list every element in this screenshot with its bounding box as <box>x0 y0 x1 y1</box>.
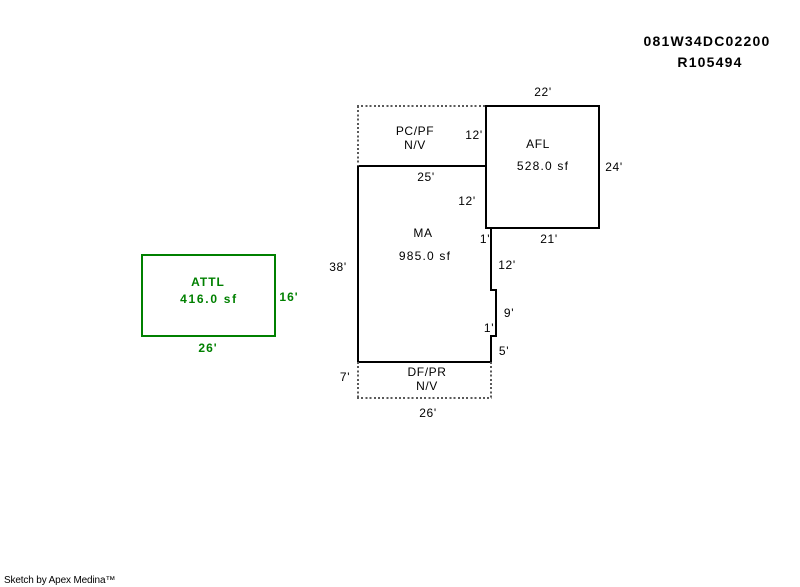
label sketch credit <box>4 575 115 586</box>
label 7' DF/PR left <box>340 370 350 384</box>
label 24' AFL right <box>605 160 622 174</box>
label 5' <box>499 344 509 358</box>
label R105494 <box>677 54 742 70</box>
wire MA top (25') <box>357 165 487 167</box>
wire MA right vertical (9') <box>495 289 497 337</box>
label 416.0 sf <box>180 292 238 306</box>
label 12' MA right upper <box>458 194 475 208</box>
wire MA right vertical (12') <box>490 227 492 291</box>
label 1' step <box>480 232 490 246</box>
label 25' MA top <box>417 170 434 184</box>
label 22' AFL top <box>534 85 551 99</box>
wire MA bottom (26') <box>357 361 492 363</box>
label parcel id 081W34DC02200 <box>644 33 771 49</box>
label AFL <box>526 137 550 151</box>
label 985.0 sf <box>399 249 451 263</box>
wire MA left (38') <box>357 165 359 363</box>
dotted PC/PF top <box>357 105 486 107</box>
wire MA right step back (1') <box>491 335 497 337</box>
wire MA right vertical (5') <box>490 335 492 363</box>
dotted DF/PR right <box>490 362 492 398</box>
label 38' MA left <box>329 260 346 274</box>
label 21' AFL bottom <box>540 232 557 246</box>
label DF/PR N/V <box>408 365 447 393</box>
label 26' ATTL bottom <box>198 341 217 355</box>
label 1' step back <box>484 321 494 335</box>
dotted PC/PF left <box>357 106 359 166</box>
label PC/PF N/V <box>396 124 434 152</box>
dotted DF/PR bottom <box>357 397 492 399</box>
label 12' PC/PF right <box>465 128 482 142</box>
label 16' ATTL right <box>279 290 298 304</box>
ATTL green outline <box>142 255 275 336</box>
label 26' DF/PR bottom <box>419 406 436 420</box>
label MA <box>413 226 432 240</box>
label 12' MA right lower <box>498 258 515 272</box>
dotted DF/PR left <box>357 362 359 398</box>
label 9' <box>504 306 514 320</box>
label ATTL <box>191 275 225 289</box>
label 528.0 sf <box>517 159 569 173</box>
wire MA right step (1') at AFL bottom <box>486 227 492 229</box>
AFL outline <box>486 106 599 228</box>
wire MA right small step out <box>491 289 497 291</box>
